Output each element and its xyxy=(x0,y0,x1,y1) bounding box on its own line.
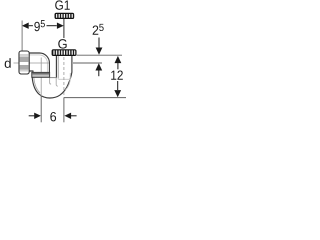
label sup5 of 2.5 xyxy=(99,24,103,31)
bottom line xyxy=(64,97,126,99)
flange (union nut at bowl inlet) xyxy=(32,72,50,77)
label sup5 of 9.5 xyxy=(41,20,45,27)
centerline vertical elbow axis xyxy=(40,58,42,97)
centerline horizontal inlet axis xyxy=(14,62,50,64)
line1: under G bar to right xyxy=(77,54,122,56)
G thread bar xyxy=(52,50,76,56)
label 2 xyxy=(93,25,99,34)
dip tube of right pipe xyxy=(56,78,58,86)
label G1 xyxy=(55,0,63,9)
nut d (left compression nut) xyxy=(19,51,29,74)
label G xyxy=(58,39,66,48)
2.5 dimension arrows xyxy=(98,38,100,48)
6 dimension xyxy=(29,115,35,117)
interior thin lines xyxy=(30,55,71,93)
6-dim extension lines xyxy=(40,96,42,122)
label 9 xyxy=(34,22,39,31)
text labels xyxy=(5,0,123,121)
inner wall right pipe xyxy=(57,56,59,79)
label d xyxy=(5,58,11,68)
label 6 xyxy=(50,112,56,121)
bowl rim chord between flange and right pipe xyxy=(49,77,56,79)
line2: inlet axis extension right xyxy=(73,62,102,64)
bowl outline xyxy=(32,72,72,98)
trap body outline: inlet pipe + elbow xyxy=(29,53,72,98)
right vertical pipe walls xyxy=(55,56,57,78)
12 dimension arrows xyxy=(115,56,122,63)
9.5 extension line xyxy=(21,21,23,51)
inner horizontal edge in bowl xyxy=(58,78,70,80)
horizontal inlet pipe top edge and elbow outer corner into right wall xyxy=(29,53,49,72)
centerline between G1 and G xyxy=(63,19,65,38)
centerline outlet axis (dashed in bowl) xyxy=(63,57,65,97)
9.5 dimension xyxy=(29,25,33,27)
elbow inner wall line xyxy=(30,55,48,72)
label 12 xyxy=(111,71,116,80)
bowl inner wall (left) xyxy=(34,78,40,93)
dip tube of elbow into bowl xyxy=(50,78,52,84)
G1 thread bar xyxy=(55,13,74,18)
inlet pipe bottom edge with step down to flange xyxy=(29,71,33,72)
extension / object lines (gray) xyxy=(41,55,126,122)
